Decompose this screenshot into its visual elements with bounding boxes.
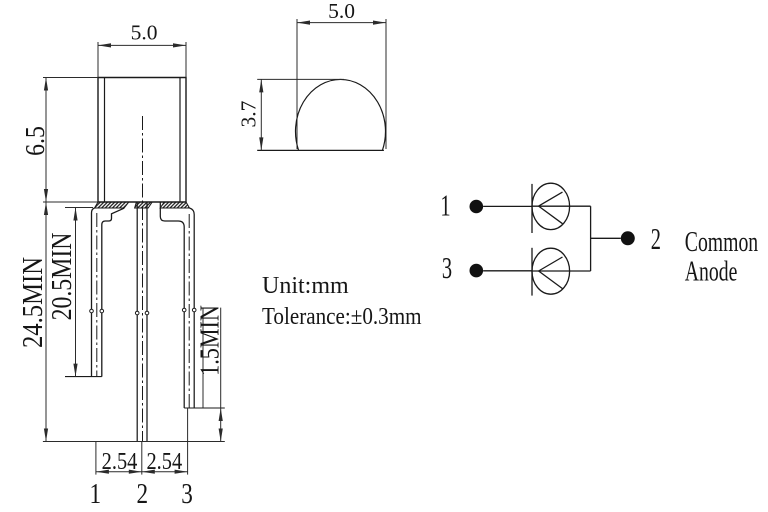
svg-text:1: 1 [90, 478, 102, 510]
svg-text:1.5MIN: 1.5MIN [196, 305, 226, 376]
svg-text:5.0: 5.0 [131, 21, 158, 45]
svg-text:1: 1 [440, 188, 450, 222]
svg-text:Common: Common [685, 227, 759, 259]
svg-text:2: 2 [137, 478, 149, 510]
svg-text:3: 3 [181, 478, 193, 510]
svg-text:6.5: 6.5 [20, 126, 51, 156]
svg-text:2.54: 2.54 [146, 447, 182, 474]
svg-text:20.5MIN: 20.5MIN [45, 233, 78, 321]
svg-text:3.7: 3.7 [237, 100, 261, 127]
svg-text:Unit:mm: Unit:mm [262, 273, 349, 299]
svg-text:2.54: 2.54 [102, 447, 138, 474]
svg-text:5.0: 5.0 [328, 0, 355, 23]
svg-text:24.5MIN: 24.5MIN [16, 257, 48, 348]
svg-text:Anode: Anode [685, 256, 738, 288]
svg-text:3: 3 [442, 251, 452, 285]
svg-text:Tolerance:±0.3mm: Tolerance:±0.3mm [262, 303, 422, 330]
svg-text:2: 2 [651, 222, 661, 256]
